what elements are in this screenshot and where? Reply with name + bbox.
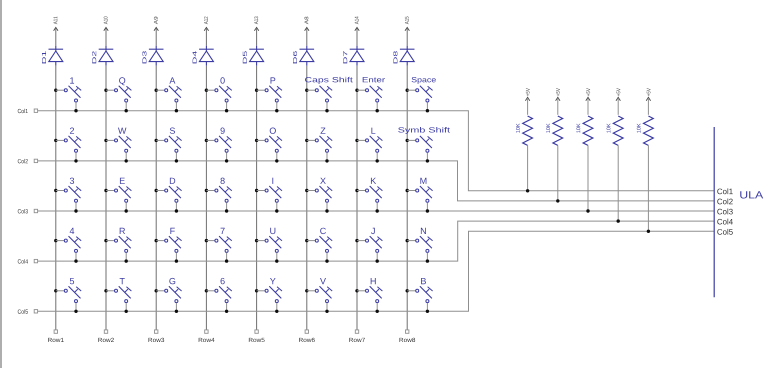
IC ULA <box>714 127 763 297</box>
wire Col2 (from left port across matrix to ULA bus) <box>38 161 715 201</box>
resistor R4 10K <box>607 116 624 145</box>
switch "T" (Row2 to Col5) <box>104 278 131 313</box>
switch "B" (Row8 to Col5) <box>406 278 433 313</box>
switch "Space" (Row8 to Col1) <box>406 77 436 112</box>
switch "6" (Row4 to Col5) <box>205 278 232 313</box>
wire Col5 (from left port across matrix to ULA bus) <box>38 231 715 311</box>
node Col1 (ULA pin label) <box>717 188 732 194</box>
wire +5V to resistor R2 <box>557 98 559 115</box>
wire +5V to resistor R5 <box>647 98 649 115</box>
port Row8 (bottom terminal) <box>399 330 415 342</box>
diode D4 <box>193 46 214 66</box>
wire row line (net A9 / Row3 vertical) <box>155 28 157 46</box>
switch "R" (Row2 to Col4) <box>104 228 131 263</box>
node Col3 (ULA pin label) <box>717 209 732 215</box>
switch "V" (Row6 to Col5) <box>305 278 332 313</box>
switch "1" (Row1 to Col1) <box>54 77 81 112</box>
switch "Enter" (Row7 to Col1) <box>355 77 385 112</box>
switch "4" (Row1 to Col4) <box>54 228 81 263</box>
wire row line (net A14 / Row7 vertical) <box>356 28 358 46</box>
wire resistor R4 to Col4 bus <box>617 145 619 221</box>
net A14 (address line arrow at top of row line) <box>355 16 359 30</box>
port Row7 (bottom terminal) <box>349 330 365 342</box>
node Col4 (ULA pin label) <box>717 219 733 225</box>
net A9 (address line arrow at top of row line) <box>154 17 159 31</box>
net A11 (address line arrow at top of row line) <box>54 17 58 31</box>
diode D1 <box>42 46 63 66</box>
port Row5 (bottom terminal) <box>249 330 265 342</box>
switch "3" (Row1 to Col3) <box>54 178 81 213</box>
switch "D" (Row3 to Col3) <box>155 178 182 213</box>
switch "Q" (Row2 to Col1) <box>104 77 131 112</box>
wire row line (net A15 / Row8 vertical) <box>406 28 408 46</box>
port Row2 (bottom terminal) <box>98 330 114 342</box>
power +5V (pull-up 4) <box>616 88 620 101</box>
junction R2/Col2 <box>556 199 559 202</box>
wire row line (net A11 / Row1 vertical) <box>55 28 57 46</box>
switch "A" (Row3 to Col1) <box>155 77 182 112</box>
wire row line (net A8 / Row6 vertical) <box>306 28 308 46</box>
resistor R3 10K <box>576 116 593 145</box>
switch "S" (Row3 to Col2) <box>155 128 182 163</box>
wire resistor R3 to Col3 bus <box>587 145 589 211</box>
junction R5/Col5 <box>647 230 650 233</box>
wire +5V to resistor R3 <box>587 98 589 115</box>
switch "I" (Row5 to Col3) <box>255 178 282 213</box>
node Col2 (ULA pin label) <box>717 198 732 204</box>
switch "N" (Row8 to Col4) <box>406 228 433 263</box>
port Col4 (left terminal) <box>18 259 38 263</box>
switch "E" (Row2 to Col3) <box>104 178 131 213</box>
net A8 (address line arrow at top of row line) <box>304 17 309 31</box>
switch "2" (Row1 to Col2) <box>54 128 81 163</box>
junction R1/Col1 <box>526 189 529 192</box>
port Row4 (bottom terminal) <box>199 330 215 342</box>
port Col5 (left terminal) <box>18 309 38 313</box>
port Row6 (bottom terminal) <box>299 330 315 342</box>
switch "P" (Row5 to Col1) <box>255 77 282 112</box>
wire +5V to resistor R1 <box>527 98 529 115</box>
wire resistor R2 to Col2 bus <box>557 145 559 201</box>
switch "W" (Row2 to Col2) <box>104 128 131 163</box>
diode D3 <box>142 46 163 66</box>
resistor R5 10K <box>637 116 654 145</box>
net A12 (address line arrow at top of row line) <box>204 17 209 31</box>
junction R3/Col3 <box>586 209 589 212</box>
wire Col3 (from left port across matrix to ULA bus) <box>38 210 715 212</box>
switch "5" (Row1 to Col5) <box>54 278 81 313</box>
port Col3 (left terminal) <box>18 209 38 213</box>
left page border <box>0 0 2 368</box>
junction R4/Col4 <box>617 219 620 222</box>
net A15 (address line arrow at top of row line) <box>405 17 409 31</box>
switch "9" (Row4 to Col2) <box>205 128 232 163</box>
diode D5 <box>243 46 264 66</box>
diode D2 <box>92 46 113 66</box>
port Row3 (bottom terminal) <box>148 330 164 342</box>
switch "O" (Row5 to Col2) <box>255 128 282 163</box>
switch "J" (Row7 to Col4) <box>355 228 382 263</box>
switch "Y" (Row5 to Col5) <box>255 278 282 313</box>
resistor R2 10K <box>546 116 563 145</box>
switch "0" (Row4 to Col1) <box>205 77 232 112</box>
switch "M" (Row8 to Col3) <box>406 178 433 213</box>
diode D6 <box>293 46 314 66</box>
switch "8" (Row4 to Col3) <box>205 178 232 213</box>
power +5V (pull-up 3) <box>586 88 590 101</box>
diode D8 <box>393 46 414 66</box>
switch "F" (Row3 to Col4) <box>155 228 182 263</box>
net A10 (address line arrow at top of row line) <box>104 17 109 31</box>
switch "H" (Row7 to Col5) <box>355 278 382 313</box>
switch "Symb Shift" (Row8 to Col2) <box>398 127 450 163</box>
port Col2 (left terminal) <box>18 159 38 163</box>
switch "U" (Row5 to Col4) <box>255 228 282 263</box>
resistor R1 10K <box>516 116 533 145</box>
switch "7" (Row4 to Col4) <box>205 228 232 263</box>
wire row line (net A13 / Row5 vertical) <box>256 28 258 46</box>
switch "C" (Row6 to Col4) <box>305 228 332 263</box>
net A13 (address line arrow at top of row line) <box>254 17 259 31</box>
wire Col1 (from left port across matrix to ULA bus) <box>38 111 715 191</box>
switch "Z" (Row6 to Col2) <box>305 128 332 163</box>
port Col1 (left terminal) <box>18 109 38 113</box>
switch "G" (Row3 to Col5) <box>155 278 182 313</box>
wire Col4 (from left port across matrix to ULA bus) <box>38 221 715 261</box>
wire row line (net A12 / Row4 vertical) <box>205 28 207 46</box>
port Row1 (bottom terminal) <box>48 330 64 342</box>
diode D7 <box>343 46 364 66</box>
switch "Caps Shift" (Row6 to Col1) <box>305 77 353 113</box>
wire resistor R1 to Col1 bus <box>527 145 529 190</box>
power +5V (pull-up 2) <box>556 88 560 101</box>
switch "X" (Row6 to Col3) <box>305 178 332 213</box>
wire row line (net A10 / Row2 vertical) <box>105 28 107 46</box>
power +5V (pull-up 1) <box>525 88 529 101</box>
power +5V (pull-up 5) <box>646 88 650 101</box>
switch "L" (Row7 to Col2) <box>355 128 382 163</box>
node Col5 (ULA pin label) <box>717 229 732 235</box>
wire +5V to resistor R4 <box>617 98 619 115</box>
wire resistor R5 to Col5 bus <box>647 145 649 231</box>
switch "K" (Row7 to Col3) <box>355 178 382 213</box>
